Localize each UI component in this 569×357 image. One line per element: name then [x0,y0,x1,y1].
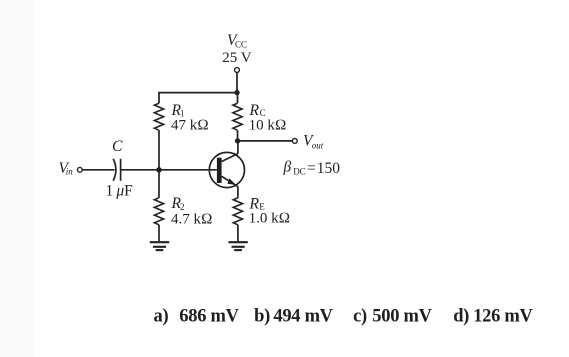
svg-text:R: R [249,102,260,119]
svg-text:CC: CC [235,39,247,49]
terminal Vout [292,139,297,144]
resistor RC [233,103,242,130]
svg-text:1.0 kΩ: 1.0 kΩ [249,211,291,227]
label RC 10 kΩ [249,102,287,134]
svg-text:500 mV: 500 mV [372,307,432,327]
wire: RE to ground [237,225,239,241]
label R2 4.7 kΩ [171,195,213,228]
svg-text:2: 2 [180,202,185,212]
node: top rail junction [234,90,239,95]
svg-text:c): c) [353,307,367,327]
svg-text:β: β [283,159,292,176]
svg-text:494 mV: 494 mV [273,307,333,327]
svg-text:126 mV: 126 mV [473,307,533,327]
answer options [154,307,534,327]
svg-text:150: 150 [317,160,341,177]
wire: base node to R2 [158,170,160,198]
wire: Vin terminal to capacitor [82,169,114,171]
svg-text:1 μF: 1 μF [106,183,134,200]
svg-text:d): d) [453,307,469,327]
wire: top rail [159,93,237,104]
node: base junction [156,167,161,172]
resistor R2 [154,198,163,225]
terminal Vin [77,167,82,172]
ground (left) [150,242,169,250]
svg-text:out: out [312,140,324,150]
wire: capacitor to base [121,169,217,171]
svg-text:25 V: 25 V [222,50,251,66]
transistor Q1 [209,152,244,187]
svg-text:a): a) [154,307,169,327]
label RE 1.0 kΩ [249,196,291,227]
wire: RC to collector node [237,130,239,141]
ground (right) [228,242,247,250]
wire: VCC terminal to top rail [236,72,238,92]
power terminal VCC [235,68,240,73]
resistor RE [233,198,242,225]
wire: rail to RC [237,93,239,104]
svg-text:10 kΩ: 10 kΩ [249,118,287,134]
wire: collector node to Vout terminal [238,140,293,142]
wire: emitter to RE [237,187,239,198]
capacitor C [113,159,120,181]
svg-text:=: = [307,160,316,177]
wire: collector node down to transistor [237,141,239,154]
svg-text:C: C [112,138,123,155]
label R1 47 kΩ [171,102,209,134]
node: collector junction [235,138,240,143]
wire: R1 to base node [158,130,160,170]
svg-text:4.7 kΩ: 4.7 kΩ [171,212,213,228]
svg-text:in: in [66,166,74,176]
svg-text:DC: DC [293,166,306,176]
svg-text:b): b) [254,307,270,327]
svg-text:686 mV: 686 mV [179,307,239,327]
wire: R2 to ground [158,225,160,241]
resistor R1 [154,103,163,130]
label beta DC = 150 [283,159,341,178]
label VCC [222,32,251,66]
svg-text:47 kΩ: 47 kΩ [171,118,209,134]
svg-text:C: C [260,108,266,118]
label Vin [59,160,74,177]
label Vout [303,133,324,151]
